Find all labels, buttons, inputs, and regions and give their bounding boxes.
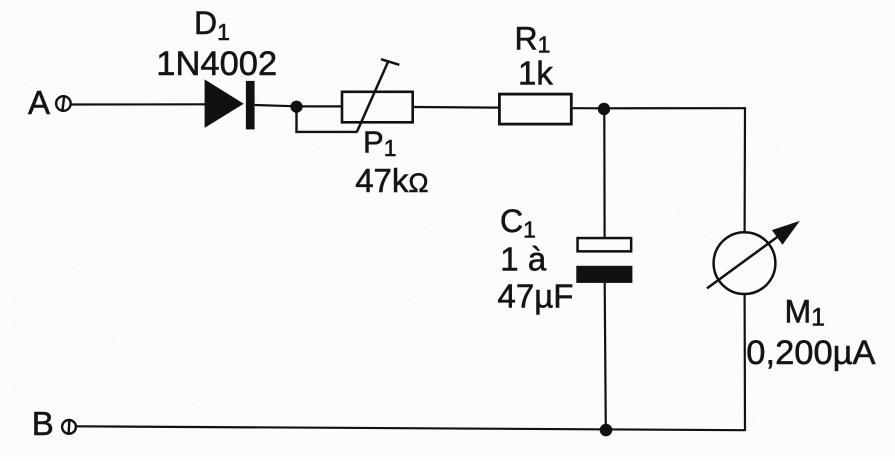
svg-text:1k: 1k <box>518 55 553 92</box>
svg-text:1 à: 1 à <box>500 240 547 277</box>
meter M1 body <box>714 232 776 294</box>
wire C1 to bottom junction <box>605 283 606 430</box>
wire junction to P1 wiper (rheostat link) <box>297 107 358 132</box>
wire top-right corner down to M1 <box>743 107 746 233</box>
wire M1 to bottom rail <box>743 294 746 432</box>
junction dot (D1 / P1 wiper tap) <box>290 101 302 113</box>
wire node C down to C1 <box>603 109 605 238</box>
wire junction to P1 body <box>297 105 342 107</box>
junction dot (C1 / bottom rail) <box>600 424 613 437</box>
junction dot (R1 / C1 / M1 node) <box>598 103 610 115</box>
M1 needle <box>707 234 782 289</box>
svg-text:0,200µA: 0,200µA <box>746 334 875 372</box>
diode D1 <box>205 79 255 129</box>
svg-text:B: B <box>32 405 54 442</box>
bottom rail B <box>77 426 745 430</box>
terminal B <box>62 420 76 435</box>
wire R1 to node C <box>573 107 604 109</box>
svg-text:1N4002: 1N4002 <box>156 45 277 83</box>
M1 needle arrowhead <box>772 221 800 245</box>
wire P1 to R1 <box>414 106 498 109</box>
P1 wiper arm <box>357 61 389 132</box>
svg-text:A: A <box>28 84 50 121</box>
wire A to D1 anode <box>71 103 205 105</box>
P1 wiper end bar <box>381 59 399 65</box>
capacitor C1 positive plate <box>578 238 632 251</box>
wire node to top-right corner <box>604 107 746 109</box>
svg-text:47kΩ: 47kΩ <box>355 162 428 199</box>
resistor R1 <box>499 94 571 124</box>
wire D1 cathode to junction <box>255 105 297 106</box>
potentiometer P1 body <box>342 92 413 123</box>
capacitor C1 negative plate <box>576 266 632 283</box>
terminal A <box>56 96 71 111</box>
svg-text:47µF: 47µF <box>498 278 574 315</box>
